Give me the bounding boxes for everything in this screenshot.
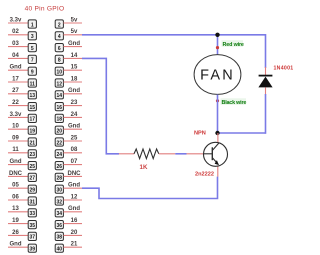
svg-text:Gnd: Gnd: [68, 124, 80, 130]
svg-text:6: 6: [58, 46, 61, 52]
svg-text:10: 10: [57, 70, 63, 76]
svg-text:34: 34: [57, 211, 63, 217]
svg-text:31: 31: [30, 199, 36, 205]
svg-text:26: 26: [57, 164, 63, 170]
svg-text:32: 32: [57, 199, 63, 205]
svg-text:23: 23: [71, 100, 78, 106]
svg-text:15: 15: [30, 105, 36, 111]
GPIO pins 35/36: left 19, right 16: [8, 218, 82, 229]
svg-text:35: 35: [30, 223, 36, 229]
GPIO pins 23/24: left 11, right 08: [8, 147, 82, 158]
svg-text:2n2222: 2n2222: [195, 171, 214, 177]
svg-text:1K: 1K: [140, 164, 148, 171]
GPIO pins 13/14: left 27, right Gnd: [8, 88, 82, 99]
svg-text:20: 20: [57, 129, 63, 135]
GPIO pins 27/28: left DNC, right DNC: [8, 171, 82, 182]
GPIO pins 33/34: left 13, right Gnd: [8, 206, 82, 217]
svg-text:Red wire: Red wire: [223, 42, 244, 48]
svg-text:13: 13: [12, 206, 19, 212]
svg-text:11: 11: [12, 147, 19, 153]
svg-text:9: 9: [31, 70, 34, 76]
svg-text:18: 18: [71, 76, 78, 82]
svg-text:Gnd: Gnd: [68, 206, 80, 212]
svg-text:04: 04: [12, 53, 19, 59]
label: Black wire: [221, 98, 247, 106]
label: Red wire: [222, 40, 244, 48]
GPIO pins 1/2: left 3.3v, right 5v: [8, 17, 82, 28]
svg-text:17: 17: [30, 117, 36, 123]
svg-text:08: 08: [71, 147, 78, 153]
svg-text:14: 14: [57, 93, 63, 99]
svg-text:09: 09: [12, 135, 19, 141]
svg-text:Gnd: Gnd: [68, 183, 80, 189]
svg-text:40: 40: [57, 247, 63, 253]
GPIO pins 7/8: left 04, right 14: [8, 53, 82, 64]
junction: collector / fan / diode node: [215, 131, 219, 135]
svg-text:1: 1: [31, 22, 34, 28]
svg-text:40 Pin GPIO: 40 Pin GPIO: [25, 6, 65, 13]
wire: pin 8 (GPIO14) to resistor, L-shaped: [82, 58, 119, 153]
svg-text:12: 12: [57, 81, 63, 87]
diode D1 1N4001 (cathode up): [258, 67, 272, 95]
svg-text:7: 7: [31, 58, 34, 64]
svg-text:21: 21: [71, 242, 78, 248]
svg-text:Black wire: Black wire: [222, 100, 247, 106]
svg-text:Gnd: Gnd: [68, 41, 80, 47]
GPIO pins 21/22: left 09, right 25: [8, 135, 82, 146]
svg-text:3: 3: [31, 34, 34, 40]
svg-text:17: 17: [12, 76, 19, 82]
svg-text:27: 27: [12, 88, 19, 94]
svg-text:24: 24: [71, 112, 78, 118]
svg-text:30: 30: [57, 188, 63, 194]
GPIO pins 5/6: left 03, right Gnd: [8, 41, 82, 52]
fan M1 (motor symbol): [194, 55, 241, 95]
svg-text:12: 12: [71, 194, 78, 200]
transistor Q1 2N2222 (NPN): [187, 133, 228, 177]
svg-text:NPN: NPN: [194, 130, 206, 136]
svg-text:29: 29: [30, 188, 36, 194]
svg-text:21: 21: [30, 140, 36, 146]
connection dot: fan red-wire terminal: [216, 46, 219, 49]
wire: resistor to transistor base: [175, 153, 186, 155]
svg-text:25: 25: [30, 164, 36, 170]
svg-text:27: 27: [30, 176, 36, 182]
svg-text:2: 2: [58, 22, 61, 28]
GPIO pins 31/32: left 06, right 12: [8, 194, 82, 205]
svg-text:02: 02: [12, 29, 19, 35]
svg-text:22: 22: [12, 100, 19, 106]
svg-text:33: 33: [30, 211, 36, 217]
svg-text:26: 26: [12, 230, 19, 236]
svg-text:19: 19: [30, 129, 36, 135]
svg-text:3.3v: 3.3v: [10, 17, 22, 23]
svg-text:20: 20: [71, 230, 78, 236]
svg-text:DNC: DNC: [68, 171, 82, 177]
wire: fan top lead down from 5v rail: [217, 35, 219, 55]
GPIO pins 17/18: left 3.3v, right 24: [8, 112, 82, 123]
svg-text:Gnd: Gnd: [10, 65, 22, 71]
svg-text:05: 05: [12, 183, 19, 189]
svg-text:Gnd: Gnd: [10, 159, 22, 165]
GPIO pins 11/12: left 17, right 18: [8, 76, 82, 87]
svg-text:38: 38: [57, 235, 63, 241]
svg-text:Gnd: Gnd: [68, 88, 80, 94]
svg-text:22: 22: [57, 140, 63, 146]
svg-text:16: 16: [71, 218, 78, 224]
svg-text:25: 25: [71, 135, 78, 141]
svg-text:5v: 5v: [71, 17, 78, 23]
svg-text:11: 11: [30, 81, 36, 87]
wire: 5v rail from pin 4 to diode cathode rail (net 5V): [82, 34, 266, 36]
wire: right rail top segment (5v rail to diode): [265, 34, 267, 68]
svg-text:10: 10: [12, 124, 19, 130]
svg-text:8: 8: [58, 58, 61, 64]
GPIO pins 29/30: left 05, right Gnd: [8, 183, 82, 194]
svg-text:16: 16: [57, 105, 63, 111]
wire: emitter down then left to pin 30 ground: [82, 177, 218, 199]
GPIO pins 9/10: left Gnd, right 15: [8, 65, 82, 76]
GPIO pins 39/40: left Gnd, right 21: [8, 242, 82, 253]
svg-text:13: 13: [30, 93, 36, 99]
svg-text:5: 5: [31, 46, 34, 52]
svg-text:14: 14: [71, 53, 78, 59]
wire: fan bottom (black wire) down to collector junction: [217, 95, 219, 134]
GPIO pins 19/20: left 10, right Gnd: [8, 124, 82, 135]
GPIO pins 15/16: left 22, right 23: [8, 100, 82, 111]
svg-text:23: 23: [30, 152, 36, 158]
svg-text:03: 03: [12, 41, 19, 47]
junction: 5v rail / fan branch node: [215, 33, 219, 37]
svg-text:1N4001: 1N4001: [274, 66, 294, 72]
GPIO pins 37/38: left 26, right 20: [8, 230, 82, 241]
svg-text:39: 39: [30, 247, 36, 253]
svg-text:5v: 5v: [71, 29, 78, 35]
svg-text:15: 15: [71, 65, 78, 71]
wire: right rail bottom segment (diode to bottom rail): [265, 94, 267, 134]
svg-text:06: 06: [12, 194, 19, 200]
GPIO pins 3/4: left 02, right 5v: [8, 29, 82, 40]
svg-text:4: 4: [58, 34, 61, 40]
connection dot: fan black-wire terminal: [216, 99, 219, 102]
svg-text:18: 18: [57, 117, 63, 123]
svg-text:24: 24: [57, 152, 63, 158]
GPIO pins 25/26: left Gnd, right 07: [8, 159, 82, 170]
resistor R1 1K: [119, 149, 176, 159]
svg-text:19: 19: [12, 218, 19, 224]
wire: bottom rail from collector junction to diode anode rail: [217, 132, 266, 134]
svg-text:DNC: DNC: [9, 171, 23, 177]
svg-text:37: 37: [30, 235, 36, 241]
svg-text:28: 28: [57, 176, 63, 182]
svg-text:36: 36: [57, 223, 63, 229]
svg-text:FAN: FAN: [200, 68, 235, 84]
svg-text:Gnd: Gnd: [10, 242, 22, 248]
svg-text:3.3v: 3.3v: [10, 112, 22, 118]
svg-text:07: 07: [71, 159, 78, 165]
